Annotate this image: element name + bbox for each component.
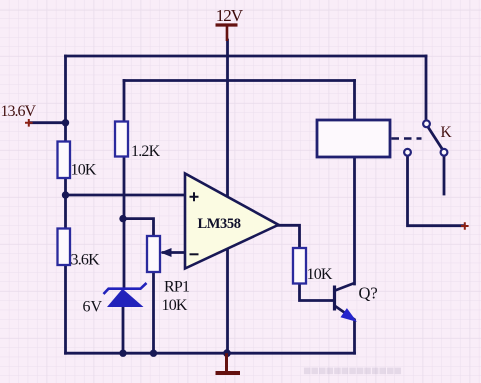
svg-text:3.6K: 3.6K [71, 252, 101, 269]
svg-text:LM358: LM358 [198, 216, 241, 232]
svg-text:K: K [441, 124, 453, 141]
svg-text:1.2K: 1.2K [131, 143, 161, 160]
svg-text:■■■■■■■■■■■■■: ■■■■■■■■■■■■■ [303, 363, 402, 378]
svg-text:6V: 6V [83, 299, 103, 316]
svg-text:RP1: RP1 [164, 279, 190, 296]
svg-text:Q?: Q? [359, 284, 378, 303]
svg-text:10K: 10K [162, 297, 188, 314]
svg-text:10K: 10K [307, 266, 333, 283]
svg-text:12V: 12V [216, 6, 244, 25]
svg-text:10K: 10K [71, 162, 97, 179]
svg-text:13.6V: 13.6V [1, 103, 37, 120]
